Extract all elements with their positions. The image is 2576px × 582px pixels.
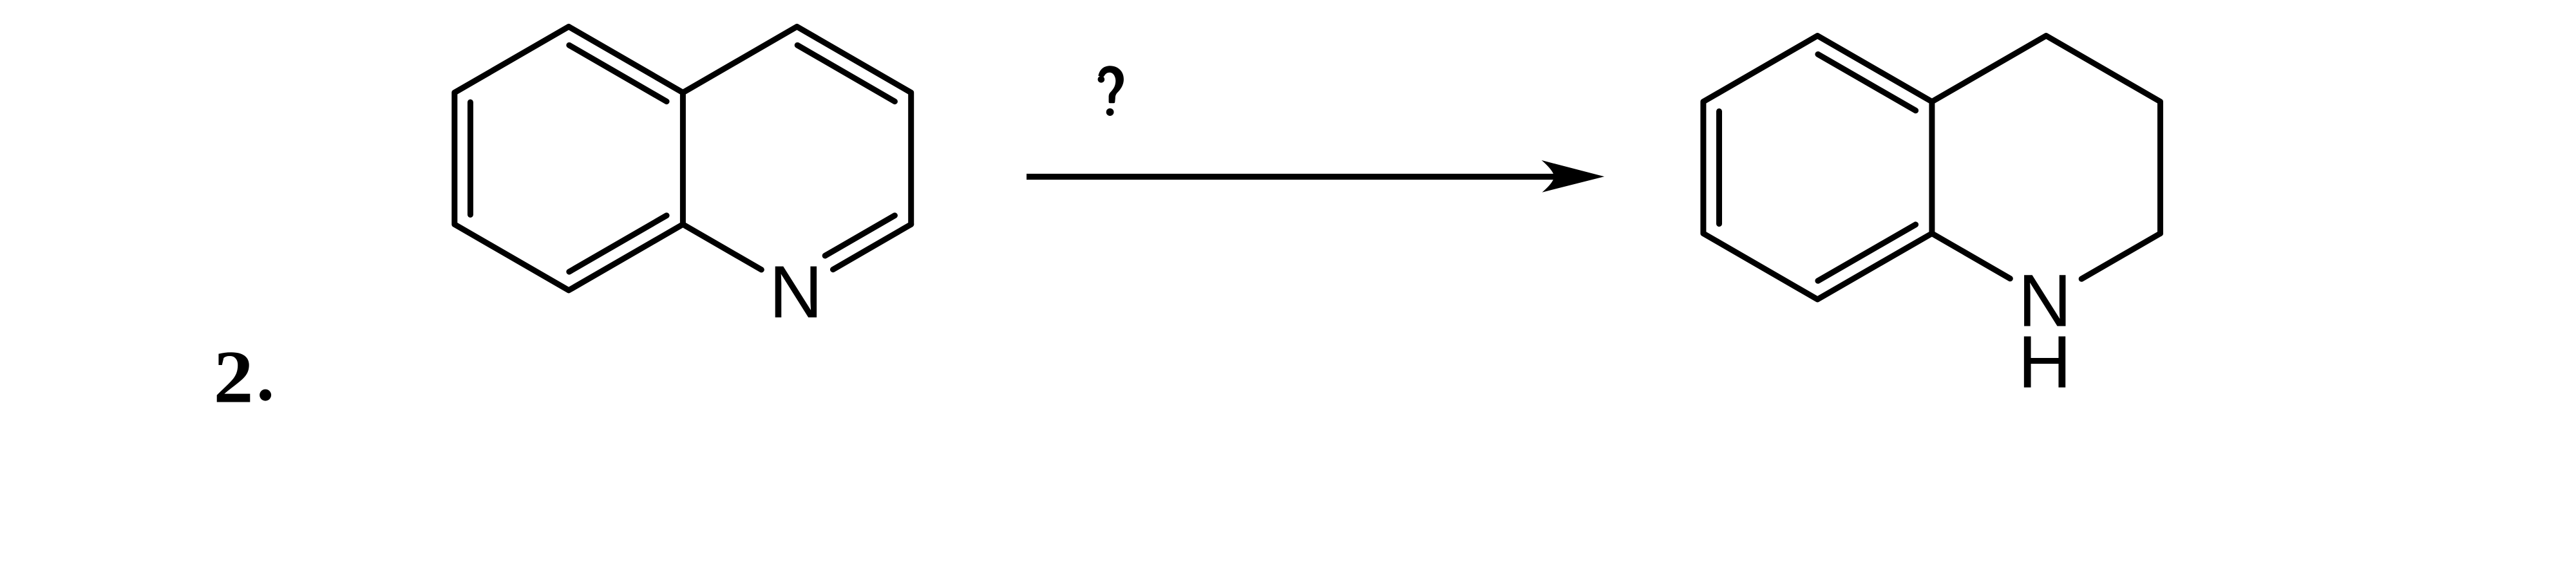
svg-text:N: N	[769, 251, 822, 333]
svg-text:H: H	[2018, 321, 2071, 404]
svg-text:2: 2	[214, 336, 254, 419]
